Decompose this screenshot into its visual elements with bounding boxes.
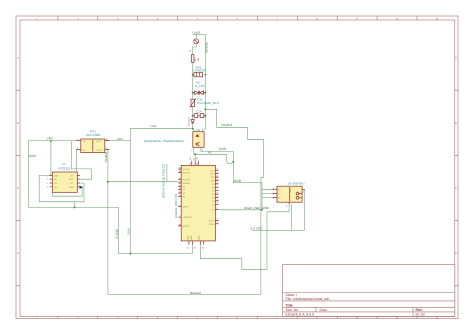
wire HLK pin2 down to U7 — [71, 141, 91, 179]
svg-text:Load: Load — [192, 31, 200, 35]
svg-text:VIN: VIN — [196, 156, 199, 160]
svg-text:(Optocoupler, Phototransistor): (Optocoupler, Phototransistor) — [144, 139, 184, 143]
resistor R19 — [191, 55, 199, 63]
wire J right pin down — [302, 189, 305, 230]
wire neutral sense to MCU — [108, 181, 178, 183]
wire HLK pin4 down — [75, 149, 77, 172]
svg-text:Id: 1/2: Id: 1/2 — [416, 313, 426, 317]
svg-text:HLK-PM01: HLK-PM01 — [86, 133, 101, 137]
svg-text:AC/N: AC/N — [97, 149, 102, 152]
wire HLK left to GND — [29, 141, 119, 208]
svg-text:ILM: ILM — [54, 186, 58, 189]
wire zigzag to J pins — [262, 183, 275, 210]
wire A1 hop arc — [226, 160, 233, 163]
top pins — [192, 161, 199, 166]
wire Line to HLK — [105, 129, 193, 141]
wire opto pin4 GND — [201, 147, 233, 161]
svg-text:Rev:: Rev: — [416, 308, 423, 312]
svg-text:GND: GND — [219, 147, 227, 151]
svg-text:AREF: AREF — [183, 206, 189, 209]
bottom band numbers — [36, 316, 439, 319]
right pins — [215, 170, 218, 224]
wire Line vertical chain — [192, 62, 194, 128]
J6 bottom pin — [288, 202, 290, 204]
svg-text:A1: A1 — [208, 151, 212, 155]
svg-text:GND: GND — [190, 235, 193, 240]
wire gnd label stub — [166, 164, 168, 182]
top band ticks — [58, 16, 417, 20]
svg-text:TVR1043: TVR1043 — [193, 69, 206, 73]
MCU A1 Arduino_UNO — [161, 156, 219, 250]
svg-text:GND: GND — [29, 154, 37, 158]
svg-text:SCL/A5: SCL/A5 — [183, 179, 191, 182]
varistor RV1 — [193, 65, 206, 76]
svg-text:GND of VCC @ TPS2121: GND of VCC @ TPS2121 — [161, 163, 165, 198]
wire opto pin3 A1 — [194, 147, 227, 160]
gnd arrow marker — [80, 186, 84, 189]
wire stub to terminal circle — [195, 34, 197, 38]
svg-text:A: A — [455, 57, 457, 60]
top band numbers — [36, 17, 439, 20]
wire bottom Neutral rail — [108, 294, 261, 296]
svg-text:TPS2121: TPS2121 — [58, 166, 71, 170]
svg-text:VDC: VDC — [47, 137, 55, 141]
junction dots — [50, 74, 263, 255]
svg-text:D0/Rx: D0/Rx — [209, 223, 216, 226]
svg-text:OUT: OUT — [69, 178, 74, 181]
svg-text:KiCad E.D.A. 9.0.0: KiCad E.D.A. 9.0.0 — [286, 313, 315, 317]
svg-text:D-: D- — [278, 197, 281, 200]
bottom pins — [189, 241, 204, 245]
optocoupler U3 — [144, 128, 204, 152]
wire 3VDC vertical — [118, 207, 120, 253]
right band ticks — [455, 90, 458, 286]
wire Load top horizontal — [193, 33, 206, 35]
svg-text:SDA/A4: SDA/A4 — [183, 172, 191, 175]
power mux U7 TPS2121 — [47, 162, 84, 192]
wire U7 gnd loop — [52, 187, 82, 196]
wire Neutral branch right — [205, 109, 263, 294]
right band letters — [455, 57, 457, 256]
wire Neutral vertical main — [204, 34, 206, 129]
svg-text:Neutral: Neutral — [222, 123, 233, 127]
wire opto pin1 stub — [193, 129, 195, 132]
wire shunt horizontal — [219, 209, 262, 211]
svg-text:GND: GND — [186, 235, 189, 240]
svg-text:GND: GND — [198, 235, 201, 240]
wire GND down to J zone — [233, 162, 262, 183]
power module PS1 HLK-PM01 — [76, 129, 109, 152]
wire MCU top pin stub — [194, 154, 196, 161]
left band letters — [17, 57, 19, 256]
svg-text:B: B — [17, 122, 19, 125]
left band ticks — [16, 90, 20, 286]
svg-text:Title:: Title: — [286, 303, 294, 307]
svg-text:U3: U3 — [196, 128, 200, 132]
wire opto neutral jog — [203, 129, 206, 132]
svg-text:GND: GND — [289, 188, 292, 193]
svg-text:J6 USB4057: J6 USB4057 — [288, 182, 305, 186]
svg-text:D: D — [455, 252, 457, 255]
svg-text:Arduino_UNO_R3: Arduino_UNO_R3 — [174, 193, 178, 218]
wire HLK neutral down — [105, 149, 108, 294]
svg-text:Line: Line — [150, 124, 156, 128]
svg-text:D: D — [17, 252, 19, 255]
wire U7 gnd stub — [74, 202, 76, 208]
TVS diode D5 — [193, 81, 206, 95]
svg-text:Neutral: Neutral — [104, 152, 108, 163]
svg-text:C: C — [455, 187, 457, 190]
svg-text:Line: Line — [117, 137, 123, 141]
svg-text:Neutral: Neutral — [190, 291, 201, 295]
thermistor TH1 — [190, 97, 220, 107]
bottom band ticks — [58, 316, 417, 318]
svg-text:Line: Line — [127, 228, 131, 234]
svg-text:File: refactorpower.kicad_sch: File: refactorpower.kicad_sch — [286, 297, 330, 301]
wire VDC down to U7 — [51, 141, 52, 175]
svg-text:RESET: RESET — [183, 225, 191, 228]
svg-text:A: A — [17, 57, 19, 60]
left pins — [178, 169, 181, 226]
diode D6 — [187, 117, 194, 126]
svg-text:VO: VO — [70, 174, 73, 177]
svg-text:B: B — [455, 122, 457, 125]
wire J pin2 down — [291, 204, 293, 230]
wire circle to R19 jog — [193, 44, 197, 55]
screw terminal J1 — [189, 39, 199, 52]
wire Line sense vertical — [129, 141, 131, 254]
wire J bottom pin to MCU — [200, 204, 289, 269]
wire U7 out loop — [39, 175, 84, 201]
svg-text:GND: GND — [69, 186, 74, 189]
svg-text:Size: A4: Size: A4 — [286, 308, 299, 312]
svg-text:SDA/A4: SDA/A4 — [183, 182, 191, 185]
svg-text:Shunt_V&C_GND: Shunt_V&C_GND — [244, 206, 270, 210]
wire 3.3VDC horizontal — [252, 229, 304, 231]
wire bottom horizontal to MCU — [119, 245, 193, 254]
svg-text:3 VDC: 3 VDC — [115, 228, 119, 238]
svg-text:~{RESET}: ~{RESET} — [183, 216, 193, 219]
svg-text:Date:: Date: — [320, 308, 328, 312]
svg-text:3.3 VDC: 3.3 VDC — [250, 227, 263, 231]
svg-text:Thermistor_NTC: Thermistor_NTC — [197, 101, 220, 105]
svg-text:SCL/A5: SCL/A5 — [183, 168, 191, 171]
capacitor C14 — [193, 110, 206, 118]
svg-text:D1/Tx: D1/Tx — [209, 219, 216, 222]
svg-text:C14: C14 — [196, 110, 202, 114]
svg-text:C: C — [17, 187, 19, 190]
title block — [283, 264, 455, 316]
svg-text:D_TVS: D_TVS — [195, 84, 205, 88]
svg-text:6.8_MOV: 6.8_MOV — [187, 117, 190, 126]
svg-text:Neutral: Neutral — [205, 42, 209, 53]
connector J6 — [273, 182, 305, 209]
svg-text:GND: GND — [234, 179, 242, 183]
